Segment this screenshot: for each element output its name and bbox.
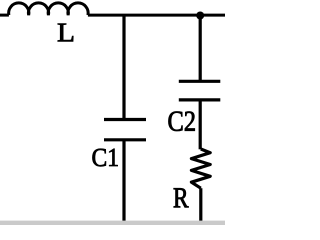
label C1 [93,149,118,167]
resistor R (zigzag) [191,149,210,188]
wire: resistor R to baseline [199,188,202,224]
capacitor C1 [104,120,146,140]
label L [58,24,73,42]
wire: C2 to resistor R [199,100,202,149]
wire: C1 branch upper (top rail down to C1) [122,15,125,120]
wire: top rail from inductor to node A [88,14,200,17]
wire: C1 branch lower (C1 down to baseline) [122,140,125,225]
wire: top rail left stub [0,14,9,17]
wire: top rail from node A to right edge [200,14,225,17]
inductor L (4 humps) [9,3,88,15]
grey baseline rail (ground line) [0,221,225,225]
label C2 [169,112,195,132]
label R [174,188,189,207]
capacitor C2 [179,81,221,100]
wire: C2 branch upper (node A down to C2) [199,15,202,82]
node A (junction dot) [196,12,204,20]
